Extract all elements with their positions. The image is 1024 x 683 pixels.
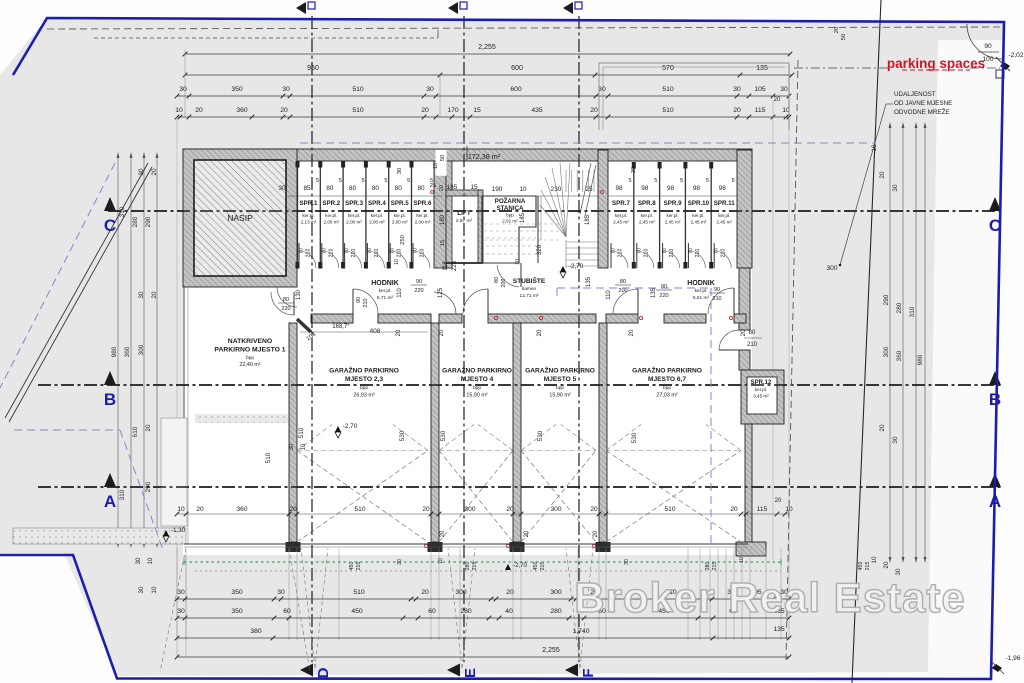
svg-text:80: 80 <box>372 185 380 192</box>
svg-text:310: 310 <box>909 306 916 317</box>
svg-text:90: 90 <box>416 279 422 285</box>
svg-text:2,00 m²: 2,00 m² <box>324 220 340 225</box>
svg-text:98: 98 <box>641 185 649 192</box>
svg-text:27,03 m²: 27,03 m² <box>656 393 677 399</box>
svg-text:30: 30 <box>397 168 403 174</box>
svg-text:ker.pl.: ker.pl. <box>325 213 337 218</box>
svg-text:115: 115 <box>755 107 766 114</box>
svg-text:-2,02: -2,02 <box>1008 52 1023 59</box>
svg-text:30: 30 <box>177 589 185 596</box>
svg-text:-2,70: -2,70 <box>343 423 358 430</box>
svg-text:165: 165 <box>447 184 458 191</box>
svg-text:980: 980 <box>917 354 924 365</box>
svg-text:20: 20 <box>879 171 886 179</box>
svg-text:300: 300 <box>826 265 837 272</box>
svg-text:220: 220 <box>659 293 668 299</box>
svg-text:A: A <box>104 492 116 511</box>
svg-text:510: 510 <box>662 86 674 93</box>
svg-text:210: 210 <box>397 249 403 258</box>
svg-text:30: 30 <box>598 86 606 93</box>
svg-text:MJESTO 5: MJESTO 5 <box>544 376 577 383</box>
svg-text:5,71 m²: 5,71 m² <box>377 295 394 301</box>
svg-text:20: 20 <box>590 506 598 513</box>
svg-text:20: 20 <box>774 97 781 103</box>
svg-text:380: 380 <box>250 628 262 635</box>
svg-text:30: 30 <box>138 586 145 594</box>
svg-text:GARAŽNO PARKIRNO: GARAŽNO PARKIRNO <box>525 366 595 375</box>
svg-text:20: 20 <box>196 506 204 513</box>
svg-text:Broker Real Estate: Broker Real Estate <box>574 574 966 621</box>
svg-text:SPR.9: SPR.9 <box>664 200 682 207</box>
svg-text:220: 220 <box>414 288 423 294</box>
svg-text:215: 215 <box>865 562 871 571</box>
svg-text:ker.pl.: ker.pl. <box>371 213 383 218</box>
svg-text:70: 70 <box>688 248 694 254</box>
svg-text:125: 125 <box>438 287 444 298</box>
svg-text:30: 30 <box>179 86 187 93</box>
svg-text:ker.pl.: ker.pl. <box>692 213 704 218</box>
svg-text:300: 300 <box>883 346 890 357</box>
svg-text:30: 30 <box>426 86 434 93</box>
svg-text:D: D <box>315 667 332 678</box>
svg-text:90: 90 <box>714 287 720 293</box>
svg-text:300: 300 <box>550 506 561 513</box>
svg-text:510: 510 <box>353 589 365 596</box>
svg-text:5: 5 <box>680 178 683 184</box>
svg-text:30: 30 <box>780 86 788 93</box>
svg-text:B: B <box>104 390 116 409</box>
svg-text:70: 70 <box>344 248 350 254</box>
svg-text:12,71 m²: 12,71 m² <box>520 293 539 299</box>
svg-text:SPR.11: SPR.11 <box>714 200 736 207</box>
svg-text:SPR.5: SPR.5 <box>391 200 409 207</box>
svg-text:210: 210 <box>712 296 721 302</box>
svg-text:30: 30 <box>136 557 142 564</box>
svg-text:10: 10 <box>301 443 307 450</box>
svg-text:510: 510 <box>265 452 272 463</box>
svg-text:30: 30 <box>733 86 741 93</box>
svg-text:20: 20 <box>422 506 430 513</box>
svg-text:SPR.7: SPR.7 <box>612 200 630 207</box>
svg-text:228: 228 <box>452 260 458 271</box>
svg-text:20: 20 <box>775 498 782 504</box>
svg-text:30: 30 <box>282 86 290 93</box>
svg-text:210: 210 <box>721 249 727 258</box>
svg-text:bpp: bpp <box>663 385 671 391</box>
svg-text:10: 10 <box>519 186 527 193</box>
svg-text:435: 435 <box>531 107 543 114</box>
svg-text:15,90 m²: 15,90 m² <box>466 393 487 399</box>
svg-text:290: 290 <box>883 294 890 305</box>
svg-text:2,45 m²: 2,45 m² <box>691 220 707 225</box>
svg-text:30: 30 <box>278 185 286 192</box>
svg-text:950: 950 <box>307 65 319 72</box>
svg-text:210: 210 <box>351 249 357 258</box>
svg-text:ker.pl.: ker.pl. <box>302 213 314 218</box>
svg-text:2,00 m²: 2,00 m² <box>346 220 362 225</box>
svg-text:MJESTO 6,7: MJESTO 6,7 <box>648 376 686 383</box>
svg-text:2,13 m²: 2,13 m² <box>301 220 317 225</box>
svg-text:70: 70 <box>611 248 617 254</box>
svg-text:2,255: 2,255 <box>478 44 496 51</box>
svg-text:30: 30 <box>138 291 145 299</box>
svg-text:450: 450 <box>349 562 355 571</box>
svg-text:2,00 m²: 2,00 m² <box>392 220 408 225</box>
svg-text:26,93 m²: 26,93 m² <box>353 393 374 399</box>
svg-text:530: 530 <box>631 432 638 443</box>
svg-text:220: 220 <box>281 306 290 312</box>
svg-text:1,740: 1,740 <box>572 628 589 635</box>
svg-text:10: 10 <box>394 259 400 265</box>
svg-text:300: 300 <box>138 344 145 355</box>
svg-text:215: 215 <box>712 562 718 571</box>
svg-text:30: 30 <box>631 167 637 173</box>
svg-text:SPR.4: SPR.4 <box>368 200 386 207</box>
svg-text:20: 20 <box>195 107 203 114</box>
svg-text:NASIP: NASIP <box>227 213 253 223</box>
svg-text:450: 450 <box>858 562 864 571</box>
svg-text:20: 20 <box>590 107 598 114</box>
svg-text:ker.pl.: ker.pl. <box>394 213 406 218</box>
svg-text:ker.pl.: ker.pl. <box>348 213 360 218</box>
svg-text:90: 90 <box>356 297 362 303</box>
svg-text:25: 25 <box>430 183 436 189</box>
svg-text:570: 570 <box>662 65 674 72</box>
svg-text:70: 70 <box>321 248 327 254</box>
svg-text:290: 290 <box>145 216 152 227</box>
svg-text:280: 280 <box>465 562 471 571</box>
svg-text:80: 80 <box>326 185 334 192</box>
svg-text:bpp: bpp <box>506 213 514 218</box>
svg-text:20: 20 <box>524 530 530 537</box>
svg-text:80: 80 <box>283 297 289 303</box>
svg-text:300: 300 <box>455 589 467 596</box>
svg-text:POŽARNA: POŽARNA <box>495 197 526 205</box>
svg-text:10: 10 <box>438 558 444 564</box>
svg-text:UDALJENOST: UDALJENOST <box>894 91 936 98</box>
svg-text:10: 10 <box>175 107 183 114</box>
svg-text:115: 115 <box>757 506 768 513</box>
svg-text:SPR.6: SPR.6 <box>414 200 432 207</box>
svg-text:185: 185 <box>520 212 526 223</box>
svg-text:110: 110 <box>397 288 403 298</box>
svg-text:210: 210 <box>643 249 649 258</box>
svg-text:20: 20 <box>439 329 445 336</box>
svg-text:350: 350 <box>231 608 243 615</box>
svg-text:ker.pl.: ker.pl. <box>416 213 428 218</box>
svg-text:C: C <box>104 216 116 235</box>
svg-text:10: 10 <box>515 259 521 265</box>
svg-text:2,45 m²: 2,45 m² <box>639 220 655 225</box>
svg-text:110: 110 <box>606 290 612 300</box>
svg-text:20: 20 <box>439 185 445 191</box>
svg-text:30: 30 <box>289 443 295 450</box>
svg-text:135: 135 <box>756 65 768 72</box>
svg-text:210: 210 <box>695 249 701 258</box>
svg-text:172,38 m²: 172,38 m² <box>468 152 501 161</box>
svg-text:360: 360 <box>124 346 131 357</box>
svg-text:80: 80 <box>395 185 403 192</box>
svg-text:20: 20 <box>506 506 514 513</box>
svg-text:180: 180 <box>440 214 446 225</box>
svg-text:bpp: bpp <box>556 385 564 391</box>
svg-text:510: 510 <box>352 107 364 114</box>
svg-text:HODNIK: HODNIK <box>371 280 399 287</box>
svg-text:E: E <box>462 668 479 678</box>
svg-text:SPR.3: SPR.3 <box>345 200 363 207</box>
svg-text:350: 350 <box>231 589 243 596</box>
svg-text:510: 510 <box>298 427 305 438</box>
svg-text:kamen: kamen <box>522 286 537 292</box>
svg-text:SPR.2: SPR.2 <box>322 200 340 207</box>
svg-text:210: 210 <box>669 249 675 258</box>
svg-text:10: 10 <box>433 163 439 169</box>
svg-text:70: 70 <box>299 248 305 254</box>
svg-text:5: 5 <box>706 178 709 184</box>
svg-text:135: 135 <box>773 626 785 633</box>
svg-text:70: 70 <box>662 248 668 254</box>
svg-text:20: 20 <box>289 506 297 513</box>
svg-text:-1,96: -1,96 <box>1005 655 1020 662</box>
svg-text:980: 980 <box>111 346 118 357</box>
svg-text:100: 100 <box>982 56 993 63</box>
svg-text:bpp: bpp <box>473 385 481 391</box>
svg-text:210: 210 <box>328 249 334 258</box>
svg-text:215: 215 <box>540 562 546 571</box>
svg-text:350: 350 <box>231 86 243 93</box>
svg-text:5: 5 <box>628 178 631 184</box>
svg-text:30: 30 <box>177 608 185 615</box>
svg-text:80: 80 <box>494 277 500 283</box>
svg-text:135: 135 <box>586 276 592 287</box>
svg-text:-1,30: -1,30 <box>171 527 186 534</box>
svg-text:10: 10 <box>177 506 185 513</box>
svg-text:610: 610 <box>132 426 139 437</box>
svg-text:408: 408 <box>370 328 381 335</box>
svg-text:MJESTO 4: MJESTO 4 <box>461 376 494 383</box>
svg-text:bpp: bpp <box>246 355 254 361</box>
svg-text:210: 210 <box>363 299 369 308</box>
svg-text:168,7°: 168,7° <box>332 324 350 330</box>
svg-text:bpp: bpp <box>360 385 368 391</box>
svg-text:530: 530 <box>399 430 406 441</box>
svg-text:50: 50 <box>841 34 847 40</box>
svg-text:20: 20 <box>537 329 543 336</box>
svg-text:ker.pl.: ker.pl. <box>755 387 767 392</box>
svg-text:10: 10 <box>148 557 154 564</box>
svg-text:ker.pl.: ker.pl. <box>718 213 730 218</box>
svg-text:STUBIŠTE: STUBIŠTE <box>513 276 546 285</box>
svg-text:2,45 m²: 2,45 m² <box>613 220 629 225</box>
svg-text:15: 15 <box>473 107 481 114</box>
svg-text:300: 300 <box>464 506 475 513</box>
svg-text:20: 20 <box>593 530 599 537</box>
svg-text:ker.pl.: ker.pl. <box>379 288 392 294</box>
svg-text:280: 280 <box>460 608 472 615</box>
svg-text:215: 215 <box>356 562 362 571</box>
svg-text:GARAŽNO PARKIRNO: GARAŽNO PARKIRNO <box>632 366 702 375</box>
svg-text:SPR.10: SPR.10 <box>688 200 710 207</box>
svg-text:70: 70 <box>714 248 720 254</box>
svg-text:320: 320 <box>536 244 543 255</box>
svg-text:90: 90 <box>984 43 992 50</box>
svg-text:2,45 m²: 2,45 m² <box>665 220 681 225</box>
svg-text:30: 30 <box>277 589 285 596</box>
svg-text:ker.pl.: ker.pl. <box>615 213 627 218</box>
svg-text:3,45 m²: 3,45 m² <box>753 394 769 399</box>
svg-text:ODVODNE MREŽE: ODVODNE MREŽE <box>894 107 950 116</box>
svg-text:20: 20 <box>879 424 886 432</box>
svg-text:25: 25 <box>585 186 593 193</box>
svg-text:-2,70: -2,70 <box>513 563 527 569</box>
svg-text:20: 20 <box>440 530 446 537</box>
svg-text:20: 20 <box>629 329 635 336</box>
svg-text:280: 280 <box>550 608 562 615</box>
svg-text:SPR.8: SPR.8 <box>638 200 656 207</box>
svg-text:98: 98 <box>693 185 701 192</box>
svg-text:60: 60 <box>283 608 291 615</box>
svg-text:530: 530 <box>440 430 447 441</box>
svg-text:PARKIRNO MJESTO 1: PARKIRNO MJESTO 1 <box>214 347 285 354</box>
svg-text:450: 450 <box>351 608 363 615</box>
svg-text:GARAŽNO PARKIRNO: GARAŽNO PARKIRNO <box>329 366 399 375</box>
svg-text:30: 30 <box>892 184 899 192</box>
svg-text:20: 20 <box>145 424 152 432</box>
svg-text:ker.pl.: ker.pl. <box>666 213 678 218</box>
svg-text:210: 210 <box>306 249 312 258</box>
svg-text:20: 20 <box>396 329 402 336</box>
svg-text:510: 510 <box>664 506 675 513</box>
svg-text:98: 98 <box>719 185 727 192</box>
svg-text:70: 70 <box>367 248 373 254</box>
svg-text:360: 360 <box>896 350 903 361</box>
svg-text:450: 450 <box>533 562 539 571</box>
svg-text:510: 510 <box>662 107 674 114</box>
svg-text:60: 60 <box>428 608 436 615</box>
svg-text:30: 30 <box>892 436 899 444</box>
svg-text:parking spaces: parking spaces <box>887 56 985 71</box>
svg-text:ker.pl.: ker.pl. <box>695 288 708 294</box>
svg-text:2,255: 2,255 <box>542 647 560 654</box>
svg-text:OD JAVNE MJESNE: OD JAVNE MJESNE <box>894 100 952 107</box>
svg-text:F: F <box>580 668 597 677</box>
svg-text:MJESTO 2,3: MJESTO 2,3 <box>345 376 383 383</box>
svg-text:70: 70 <box>636 248 642 254</box>
svg-text:118: 118 <box>443 261 449 271</box>
svg-text:NATKRIVENO: NATKRIVENO <box>228 338 272 345</box>
svg-text:530: 530 <box>537 430 544 441</box>
svg-text:20: 20 <box>421 107 429 114</box>
svg-text:130: 130 <box>296 289 302 300</box>
svg-text:GARAŽNO PARKIRNO: GARAŽNO PARKIRNO <box>442 366 512 375</box>
svg-text:170: 170 <box>447 107 459 114</box>
svg-text:310: 310 <box>119 489 126 500</box>
svg-text:20: 20 <box>151 291 158 299</box>
svg-text:280: 280 <box>132 216 139 227</box>
svg-text:280: 280 <box>896 302 903 313</box>
svg-text:190: 190 <box>492 186 503 193</box>
svg-text:5: 5 <box>654 178 657 184</box>
svg-text:10: 10 <box>871 556 878 564</box>
svg-text:22,40 m²: 22,40 m² <box>239 362 260 368</box>
svg-text:600: 600 <box>511 65 523 72</box>
svg-text:5: 5 <box>732 178 735 184</box>
svg-text:15: 15 <box>470 184 478 191</box>
svg-text:98: 98 <box>615 185 623 192</box>
svg-text:2,00 m²: 2,00 m² <box>369 220 385 225</box>
svg-text:210: 210 <box>374 249 380 258</box>
svg-text:80: 80 <box>349 185 357 192</box>
svg-text:210: 210 <box>747 342 758 348</box>
svg-text:185: 185 <box>585 214 591 225</box>
svg-text:HODNIK: HODNIK <box>687 280 715 287</box>
svg-text:50: 50 <box>440 155 446 161</box>
svg-text:ker.pl.: ker.pl. <box>641 213 653 218</box>
svg-text:80: 80 <box>749 330 756 336</box>
svg-text:5: 5 <box>384 178 387 184</box>
svg-text:98: 98 <box>667 185 675 192</box>
svg-text:135: 135 <box>651 287 657 298</box>
svg-text:5: 5 <box>339 178 342 184</box>
svg-text:20: 20 <box>506 589 514 596</box>
svg-text:5: 5 <box>407 178 410 184</box>
svg-text:90: 90 <box>661 284 667 290</box>
svg-text:210: 210 <box>618 249 624 258</box>
svg-text:5: 5 <box>316 178 319 184</box>
svg-text:2,45 m²: 2,45 m² <box>716 220 732 225</box>
svg-text:10: 10 <box>151 586 158 594</box>
svg-text:2,00 m²: 2,00 m² <box>415 220 431 225</box>
svg-text:20: 20 <box>280 107 288 114</box>
svg-text:80: 80 <box>620 279 626 285</box>
svg-text:200: 200 <box>618 288 627 294</box>
svg-text:2,91 m²: 2,91 m² <box>502 219 518 224</box>
svg-text:300: 300 <box>550 589 562 596</box>
svg-text:360: 360 <box>236 107 248 114</box>
svg-text:15: 15 <box>440 240 446 246</box>
svg-text:20: 20 <box>834 27 840 33</box>
svg-text:20: 20 <box>733 107 741 114</box>
svg-text:20: 20 <box>730 506 738 513</box>
svg-text:B: B <box>989 390 1001 409</box>
svg-text:280: 280 <box>705 562 711 571</box>
svg-text:20: 20 <box>151 168 158 176</box>
svg-text:360: 360 <box>236 506 247 513</box>
svg-text:20: 20 <box>421 589 429 596</box>
svg-text:20: 20 <box>883 561 890 569</box>
svg-text:SPR.1: SPR.1 <box>300 200 318 207</box>
svg-text:510: 510 <box>352 86 364 93</box>
svg-text:600: 600 <box>510 86 522 93</box>
svg-text:70: 70 <box>413 248 419 254</box>
svg-text:510: 510 <box>354 506 365 513</box>
svg-text:40: 40 <box>505 608 513 615</box>
svg-text:15,90 m²: 15,90 m² <box>549 393 570 399</box>
svg-text:20: 20 <box>741 329 747 336</box>
svg-text:210: 210 <box>420 249 426 258</box>
svg-text:85: 85 <box>303 185 311 192</box>
svg-text:5,61 m²: 5,61 m² <box>693 295 710 301</box>
svg-text:80: 80 <box>417 185 425 192</box>
svg-text:5: 5 <box>362 178 365 184</box>
svg-text:250: 250 <box>400 235 406 245</box>
svg-text:70: 70 <box>390 248 396 254</box>
svg-text:105: 105 <box>754 86 766 93</box>
svg-text:-2,70: -2,70 <box>569 263 584 270</box>
